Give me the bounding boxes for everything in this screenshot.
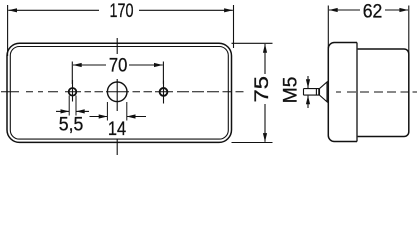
dimension text 5,5	[59, 114, 84, 136]
label M5 (rotated)	[280, 77, 302, 104]
mounting hole left (5,5)	[69, 88, 77, 96]
svg-text:14: 14	[108, 118, 126, 140]
dimension 75 extension line bottom	[232, 142, 273, 144]
svg-text:170: 170	[110, 0, 134, 22]
svg-text:75: 75	[251, 76, 273, 103]
dimension text 70	[109, 55, 128, 77]
svg-text:5,5: 5,5	[59, 114, 84, 136]
dimension 62 extension line left	[327, 6, 329, 49]
big circle (14)	[107, 82, 127, 102]
dimension 14 extension lines (circle edges)	[107, 102, 126, 121]
dimension text 75 (rotated)	[251, 76, 273, 103]
M5 stud	[304, 89, 320, 96]
mounting hole right	[160, 88, 168, 96]
side view lens body	[328, 43, 357, 142]
dimension 70 extension line left	[71, 62, 73, 85]
horizontal center line (dash-dot)	[1, 91, 244, 93]
dimension line 170	[8, 9, 233, 11]
side view center line (dash-dot)	[336, 91, 417, 93]
right hole vertical center line	[163, 81, 165, 104]
left hole vertical center line	[72, 80, 74, 102]
dimension 70 extension line right	[162, 62, 164, 85]
M5 stud diameter arrows	[307, 76, 309, 108]
side view bezel edge line	[356, 43, 358, 142]
dimension line 14 (arrows outside)	[90, 116, 147, 118]
dimension line 75	[264, 44, 266, 142]
dimension 5,5 extension lines (hole edges)	[69, 96, 76, 116]
dimension line 5,5 (arrows outside)	[56, 110, 89, 112]
dimension text 170	[110, 0, 134, 22]
svg-text:62: 62	[363, 0, 383, 22]
front view inner outline (lens edge)	[10, 47, 228, 140]
dimension 75 extension line top	[232, 42, 273, 44]
svg-text:M5: M5	[280, 77, 302, 104]
svg-text:70: 70	[109, 55, 128, 77]
dimension 62 extension line right	[408, 6, 410, 54]
dimension line 62	[329, 9, 408, 11]
side view housing	[358, 49, 409, 137]
big circle vertical center line	[116, 38, 118, 155]
dimension 170 extension line right	[233, 5, 235, 48]
dimension text 14	[108, 118, 126, 140]
dimension text 62	[363, 0, 383, 22]
front view outer outline	[7, 43, 232, 142]
stud cone washer	[320, 82, 328, 102]
dimension line 70	[73, 64, 163, 66]
dimension 170 extension line left	[7, 5, 9, 56]
